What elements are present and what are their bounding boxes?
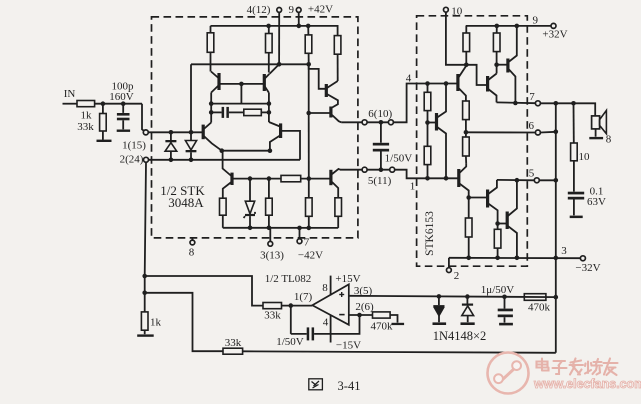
resistor R18 10 (zobel) bbox=[573, 103, 575, 143]
node bus pin5 bbox=[554, 178, 559, 183]
op-amp U1 TL082 triangle bbox=[312, 284, 349, 324]
diode D4 1N4148 (up) bbox=[466, 297, 468, 304]
wire 6(10) to pin4 bbox=[394, 84, 458, 123]
transistor Q4 (diff right) bbox=[279, 123, 282, 138]
capacitor C 1u/50V (servo) bbox=[504, 297, 506, 309]
svg-text:470k: 470k bbox=[528, 302, 551, 314]
resistor R4 bbox=[334, 36, 341, 55]
wire Q15 base stub bbox=[498, 223, 507, 225]
node rc left bbox=[209, 110, 214, 115]
wire to pin 1(15) bbox=[142, 104, 144, 132]
wire 6(10) run bbox=[341, 121, 362, 123]
wire pin1 input run bbox=[148, 131, 202, 133]
wire mirror bases bbox=[219, 83, 264, 85]
transistor Q13 (box2 lower input) bbox=[457, 169, 460, 187]
svg-text:6: 6 bbox=[529, 120, 535, 132]
pin 6b terminal bbox=[535, 130, 540, 135]
svg-text:−42V: −42V bbox=[298, 250, 323, 262]
pin 8 terminal bbox=[190, 240, 195, 245]
wire pin 6 right bbox=[541, 131, 556, 134]
node rail 9 bbox=[297, 24, 302, 29]
node servo out tee bbox=[142, 274, 147, 279]
pin 9 terminal bbox=[296, 7, 301, 12]
svg-text:3: 3 bbox=[561, 245, 567, 257]
svg-text:2(6): 2(6) bbox=[355, 301, 374, 313]
svg-text:5(11): 5(11) bbox=[368, 175, 392, 187]
svg-text:8: 8 bbox=[189, 247, 195, 259]
resistor R6 bbox=[268, 179, 270, 199]
resistor R19 1k (to ground) bbox=[141, 312, 148, 330]
capacitor C 100p/160V to ground bbox=[122, 104, 124, 113]
node opamp out bbox=[289, 303, 294, 308]
transistor Q15 (lower output) bbox=[506, 212, 509, 230]
svg-text:9: 9 bbox=[289, 4, 295, 16]
node rail Rb bbox=[495, 24, 500, 29]
node R6 top bbox=[267, 176, 272, 181]
wire driver base y113 bbox=[309, 112, 331, 114]
caption figure number bbox=[309, 379, 323, 390]
node after 1k bbox=[101, 101, 106, 106]
node D2 bottom bbox=[189, 158, 194, 163]
transistor Q9 (box2 input) bbox=[456, 74, 459, 91]
wire +32V rail (pin 9) bbox=[466, 25, 551, 27]
ground (1u cap) bbox=[499, 323, 513, 326]
node tail left bbox=[220, 148, 225, 153]
node D2 top bbox=[189, 130, 194, 135]
op-amp + sign bbox=[339, 294, 344, 296]
ground (zobel) bbox=[570, 216, 583, 219]
svg-text:470k: 470k bbox=[371, 321, 394, 333]
svg-text:1k: 1k bbox=[150, 317, 162, 329]
wire bottom sense left bbox=[145, 293, 223, 351]
pin 7 terminal bbox=[297, 239, 302, 244]
svg-text:1/50V: 1/50V bbox=[385, 153, 413, 165]
svg-text:10: 10 bbox=[451, 5, 463, 17]
resistor R16 bbox=[468, 198, 470, 219]
ground (D3) bbox=[433, 322, 447, 325]
svg-text:160V: 160V bbox=[109, 91, 134, 103]
diode D3 1N4148 (down) bbox=[438, 296, 440, 305]
pin 2 terminal bbox=[447, 268, 452, 273]
svg-text:−32V: −32V bbox=[575, 262, 600, 274]
pin 8 stub bbox=[191, 238, 193, 240]
wire pin 7 left bbox=[497, 101, 536, 104]
pin 5(11) terminal a bbox=[362, 167, 367, 172]
node pin6 tap bbox=[464, 130, 469, 135]
svg-text:9: 9 bbox=[533, 15, 539, 27]
op-amp - sign bbox=[339, 314, 344, 316]
wire bias row y178 right bbox=[301, 178, 331, 180]
ground (470k) bbox=[392, 323, 405, 325]
zener D5 bbox=[249, 179, 251, 202]
wire bottom rail box1 bbox=[223, 227, 338, 229]
wire T4 base bbox=[497, 64, 508, 66]
wire pin 5 right bbox=[539, 179, 555, 181]
node zobel top bbox=[571, 101, 576, 106]
resistor R13 (bias lower) bbox=[463, 137, 470, 156]
transistor Q1 (mirror left) bbox=[217, 73, 220, 90]
capacitor C comp (series RC) bbox=[211, 111, 221, 113]
resistor R21 33k (sense) bbox=[223, 348, 243, 354]
svg-text:+15V: +15V bbox=[335, 273, 360, 285]
node cap 100p top bbox=[121, 101, 126, 106]
resistor R15 (left bottom) bbox=[424, 146, 431, 164]
node y103 right bbox=[267, 101, 272, 106]
wire bias row y178 bbox=[233, 178, 281, 180]
pin 10 terminal bbox=[444, 7, 449, 12]
wire 5(11) to pin1 bbox=[395, 170, 459, 179]
ground (33k) bbox=[97, 140, 112, 142]
wire +42V rail bbox=[211, 26, 338, 36]
pin 9b terminal bbox=[551, 23, 556, 28]
resistor R5 (tail emitter) bbox=[220, 198, 227, 215]
svg-text:6(10): 6(10) bbox=[368, 108, 392, 120]
pin 4(12) terminal bbox=[277, 7, 282, 12]
node pin7/Q11 bbox=[513, 101, 518, 106]
node tail right bbox=[268, 148, 273, 153]
wire bias bus y64 bbox=[191, 63, 309, 65]
wire inverting input bbox=[349, 314, 373, 316]
wire Q4 base to feedback bbox=[281, 131, 300, 160]
resistor R12 (bias upper) bbox=[463, 101, 470, 120]
wire long drop low bbox=[308, 113, 310, 179]
pin 3(13) stub bbox=[269, 228, 271, 242]
svg-text:7: 7 bbox=[304, 237, 310, 249]
capacitor C 1/50V (servo integrator) bbox=[290, 306, 292, 334]
node servo net D3 bbox=[437, 294, 442, 299]
node zener top bbox=[248, 176, 253, 181]
svg-text:1(15): 1(15) bbox=[122, 140, 146, 152]
pin 7b terminal bbox=[535, 101, 540, 106]
node Q13 emitter bbox=[466, 195, 471, 200]
svg-text:IN: IN bbox=[64, 88, 76, 100]
node bottom sense tee bbox=[142, 291, 147, 296]
node pin1 a bbox=[425, 176, 430, 181]
resistor R10 (box2 left load) bbox=[465, 26, 467, 33]
module box STK6153 (dashed) bbox=[417, 16, 528, 266]
wire pin10 drop bbox=[446, 12, 466, 65]
wire 5(11) mid bbox=[367, 169, 389, 171]
wire base mid drop bbox=[240, 84, 242, 104]
node rail R3 bbox=[306, 24, 311, 29]
wire diff tail bbox=[222, 150, 270, 152]
wire R12-R13 bbox=[465, 120, 467, 137]
pin 6(10) terminal b bbox=[388, 120, 393, 125]
svg-text:5: 5 bbox=[529, 167, 535, 179]
wire pin 7 right bbox=[541, 103, 596, 116]
node bus pin3 bbox=[554, 256, 559, 261]
svg-text:1/50V: 1/50V bbox=[276, 336, 304, 348]
resistor R 33k to ground bbox=[100, 114, 107, 132]
svg-text:STK6153: STK6153 bbox=[424, 211, 436, 256]
wire 470k to gnd bbox=[390, 315, 397, 323]
wire pin2 feedback run bbox=[149, 159, 300, 161]
resistor R8 bbox=[308, 179, 310, 198]
svg-text:33k: 33k bbox=[225, 337, 242, 349]
ground (R19) bbox=[137, 334, 154, 336]
transistor Q11 (upper driver PNP) bbox=[506, 59, 509, 73]
node pin4 a bbox=[425, 81, 430, 86]
svg-text:7: 7 bbox=[529, 91, 535, 103]
node Q10 coll/T4 base bbox=[494, 62, 499, 67]
resistor R7 (horizontal, bias row) bbox=[281, 175, 301, 181]
svg-text:1(7): 1(7) bbox=[294, 291, 313, 303]
transistor Q2 (mirror right) bbox=[263, 74, 266, 91]
svg-text:33k: 33k bbox=[264, 310, 281, 322]
node bottom zener bbox=[248, 226, 253, 231]
pin 2 stub bbox=[448, 258, 450, 268]
wire pin 5 left bbox=[497, 179, 534, 181]
svg-text:4(12): 4(12) bbox=[247, 4, 271, 16]
resistor R3 bbox=[307, 26, 309, 35]
node pin5/Q15 bbox=[515, 178, 520, 183]
node R14/R15 bbox=[425, 120, 430, 125]
speaker bbox=[592, 116, 600, 129]
node bottom Q15 bbox=[515, 255, 520, 260]
transistor Q8 (output lower) bbox=[329, 170, 332, 185]
node bottom R6 bbox=[267, 226, 272, 231]
wire pin 9 stub bbox=[298, 12, 300, 26]
module box 1/2 STK3048A (dashed) bbox=[152, 17, 358, 238]
wire 6(10) mid bbox=[367, 121, 388, 123]
svg-text:3(13): 3(13) bbox=[260, 250, 284, 262]
svg-text:+42V: +42V bbox=[308, 4, 333, 16]
capacitor C 1/50V (interstage) bbox=[380, 122, 382, 142]
wire pin4 to mirror bbox=[270, 64, 280, 74]
node inv input bbox=[357, 313, 362, 318]
svg-text:1/2 TL082: 1/2 TL082 bbox=[265, 273, 312, 285]
ground (speaker) bbox=[589, 137, 603, 139]
pin 3(13) terminal bbox=[268, 241, 273, 246]
pin 5b terminal bbox=[534, 178, 539, 183]
transistor Q3 (diff left) bbox=[202, 125, 205, 140]
wire 5(11) run bbox=[340, 169, 362, 171]
node pin1 b bbox=[444, 176, 449, 181]
wire bottom sense right bbox=[243, 351, 556, 353]
pin 7 stub bbox=[299, 228, 301, 239]
transistor Q7 (output upper) bbox=[329, 107, 332, 118]
node bus pin6 bbox=[554, 129, 559, 134]
ground (100p) bbox=[117, 130, 130, 132]
pin 2(24) terminal bbox=[144, 157, 149, 162]
node bottom R16 bbox=[466, 255, 471, 260]
pin 5(11) terminal b bbox=[390, 167, 395, 172]
transistor Q6 (driver upper) bbox=[325, 84, 328, 97]
watermark text line 1 bbox=[537, 359, 618, 376]
pin 1(15) terminal bbox=[143, 130, 148, 135]
capacitor C 0.1/63V (zobel) bbox=[573, 161, 575, 192]
node D1 bottom bbox=[169, 158, 174, 163]
wire pin 4(12) drop bbox=[278, 12, 280, 64]
wire box2 left col bbox=[427, 84, 429, 93]
node Q14 emitter/Q15 base bbox=[495, 221, 500, 226]
wire R14-R15 bbox=[427, 111, 429, 147]
wire left feedback drop bbox=[190, 64, 192, 132]
node pin10/collector bbox=[464, 63, 469, 68]
pin 6(10) terminal a bbox=[362, 120, 367, 125]
node y103 left bbox=[209, 101, 214, 106]
pin 8 wire (V+) bbox=[330, 276, 332, 296]
node driver base upper bbox=[306, 111, 311, 116]
svg-text:10: 10 bbox=[579, 151, 591, 163]
svg-text:www.elecfans.com: www.elecfans.com bbox=[533, 377, 641, 391]
watermark logo (elecfans) bbox=[488, 353, 529, 394]
resistor R20 33k (servo out) bbox=[263, 303, 282, 309]
node servo/bus bbox=[554, 295, 559, 300]
node cap1/50 top bbox=[379, 120, 384, 125]
wire servo out to 33k bbox=[145, 276, 263, 306]
svg-text:1: 1 bbox=[410, 180, 416, 192]
svg-text:1N4148×2: 1N4148×2 bbox=[433, 329, 487, 343]
wire y103 row bbox=[211, 103, 269, 105]
diode D1 (cathode up) bbox=[170, 132, 172, 140]
pin 3 terminal (-32V) bbox=[580, 256, 585, 261]
wire input lead bbox=[63, 103, 78, 105]
node D1 top bbox=[169, 130, 174, 135]
resistor R14 (left top) bbox=[424, 92, 431, 110]
resistor R-in 1k (series input) bbox=[77, 101, 95, 107]
wire pin 6 left bbox=[466, 131, 535, 133]
svg-text:4: 4 bbox=[323, 316, 329, 328]
node rail R2 bbox=[266, 24, 271, 29]
svg-text:8: 8 bbox=[606, 134, 612, 146]
wire 33k to opamp bbox=[282, 305, 313, 307]
pin 4 wire (V-) bbox=[330, 315, 332, 342]
wire Q14 base bbox=[469, 197, 488, 199]
node rail T4 bbox=[515, 24, 520, 29]
svg-text:3048A: 3048A bbox=[168, 195, 204, 210]
svg-text:−15V: −15V bbox=[336, 340, 361, 352]
svg-text:2(24): 2(24) bbox=[120, 154, 144, 166]
node servo net D4 bbox=[465, 294, 470, 299]
transistor Q14 (lower driver) bbox=[486, 190, 489, 208]
svg-text:3-41: 3-41 bbox=[338, 379, 361, 393]
transistor Q5 (tail source) bbox=[230, 173, 233, 185]
svg-text:4: 4 bbox=[406, 72, 412, 84]
ground (D4) bbox=[461, 322, 475, 325]
transistor Q12 (box2 left) bbox=[435, 113, 438, 131]
node servo net cap bbox=[502, 295, 507, 300]
resistor R17 bbox=[494, 229, 501, 248]
resistor R11 bbox=[496, 26, 498, 33]
wire R3 to driver base bbox=[309, 64, 327, 89]
resistor R2 bbox=[268, 26, 270, 34]
svg-text:2: 2 bbox=[454, 270, 460, 282]
node mirror base mid bbox=[239, 82, 244, 87]
resistor R comp (series RC) bbox=[244, 109, 261, 115]
node bottom R17 bbox=[495, 255, 500, 260]
wire non-inverting out bbox=[349, 296, 556, 297]
resistor R1 (load, left) bbox=[210, 26, 212, 33]
svg-text:63V: 63V bbox=[587, 196, 606, 208]
transistor Q10 (box2 2nd) bbox=[486, 76, 489, 92]
wire box2 bottom rail / pin 3 bbox=[449, 257, 580, 259]
node cap1/50 bottom bbox=[379, 167, 384, 172]
node bus pin7 bbox=[554, 101, 559, 106]
node bottom pin7 bbox=[297, 226, 302, 231]
node bottom R8 bbox=[307, 226, 312, 231]
wire input node run bbox=[95, 103, 142, 105]
wire 33k lead bbox=[102, 104, 104, 114]
wire 2(24) feedback drop bbox=[145, 162, 146, 312]
wire long drop mid bbox=[308, 64, 310, 113]
wire output bus vertical bbox=[555, 103, 557, 352]
node bias/pin4 bbox=[277, 62, 282, 67]
wire 33k to ground bbox=[102, 131, 104, 140]
svg-text:8: 8 bbox=[322, 282, 328, 294]
resistor R22 470k (inv-gnd) bbox=[373, 312, 391, 318]
svg-text:1μ/50V: 1μ/50V bbox=[481, 284, 514, 296]
node bias/long drop bbox=[307, 176, 312, 181]
svg-text:+32V: +32V bbox=[542, 28, 567, 40]
diode D2 (cathode down) bbox=[190, 132, 192, 140]
svg-text:33k: 33k bbox=[77, 121, 94, 133]
svg-text:1k: 1k bbox=[81, 110, 93, 122]
wire Q9 base link bbox=[466, 65, 487, 85]
resistor R9 (lower emitter) bbox=[335, 198, 342, 217]
node pin4 b bbox=[444, 81, 449, 86]
node bias/R3 bbox=[306, 62, 311, 67]
resistor R23 470k (servo series) bbox=[524, 294, 546, 301]
node rc right bbox=[267, 110, 272, 115]
